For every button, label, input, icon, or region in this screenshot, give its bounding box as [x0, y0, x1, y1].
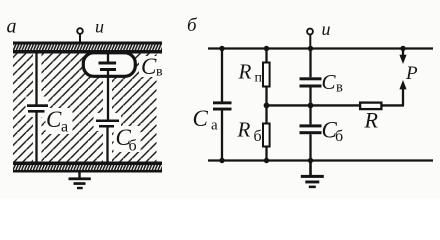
svg-text:б: б: [254, 128, 262, 145]
svg-text:а: а: [61, 119, 68, 136]
capacitor Cv (right diagram): [300, 77, 322, 87]
svg-text:а: а: [7, 16, 17, 38]
white patch behind Cb label: [114, 126, 141, 152]
svg-text:R: R: [237, 118, 251, 142]
svg-text:R: R: [364, 108, 379, 133]
svg-text:C: C: [141, 54, 157, 79]
white channel around Ca lead: [26, 54, 49, 162]
bottom wire: [208, 159, 433, 161]
wire left branch: [221, 49, 223, 161]
svg-text:в: в: [156, 65, 163, 80]
label Rb: [237, 118, 262, 146]
resistor Rb: [263, 124, 270, 147]
svg-text:C: C: [46, 107, 62, 132]
svg-text:п: п: [255, 71, 263, 86]
svg-text:C: C: [322, 70, 337, 94]
node dot resistor top: [264, 46, 269, 51]
top wire: [208, 47, 433, 49]
node dot cap top: [308, 46, 313, 51]
svg-text:б: б: [187, 15, 198, 36]
svg-text:б: б: [335, 128, 343, 145]
label Rp: [238, 60, 263, 86]
capacitor Cb (right diagram): [300, 124, 322, 134]
ground (right diagram): [301, 161, 324, 189]
label Ca (left): [46, 107, 68, 136]
node dot resistor mid: [264, 103, 270, 109]
node dot cap bottom: [308, 158, 313, 163]
label и (left): [95, 17, 104, 37]
label Cb (left): [116, 125, 137, 155]
node dot cap mid: [308, 103, 314, 109]
label Cv (right): [322, 70, 344, 96]
svg-text:а: а: [211, 118, 218, 134]
node dot top-left: [219, 46, 224, 51]
terminal и (left): [77, 28, 83, 42]
label и (right): [322, 19, 331, 39]
svg-text:и: и: [95, 17, 104, 37]
svg-text:б: б: [129, 138, 137, 155]
arrow P up: [399, 80, 406, 105]
capacitor Cb (left diagram): [96, 120, 119, 162]
svg-text:и: и: [322, 19, 331, 39]
node dot resistor bottom: [264, 158, 269, 163]
svg-text:C: C: [193, 106, 209, 131]
arrow P down: [399, 49, 406, 65]
capacitor Cv (left diagram): [99, 52, 117, 120]
svg-text:P: P: [405, 63, 418, 84]
white channel around Cb lead: [94, 77, 122, 162]
label P: [405, 63, 418, 84]
resistor branch wire: [265, 49, 267, 161]
ground (left diagram): [69, 172, 91, 189]
node dot arrow top: [400, 46, 405, 51]
resistor Rp: [263, 63, 270, 87]
svg-text:в: в: [336, 80, 343, 96]
middle capacitor branch wire: [309, 49, 311, 161]
label а (diagram marker): [7, 16, 17, 38]
label Ca (right): [193, 106, 219, 134]
terminal и (right): [307, 29, 313, 49]
label Cv (left): [139, 54, 163, 80]
mid wire: [267, 104, 405, 106]
bottom electrode bar: [13, 162, 162, 173]
top electrode bar: [13, 42, 162, 54]
stadium cavity (Cv region): [83, 53, 135, 77]
capacitor Ca (right diagram): [213, 101, 232, 110]
svg-text:R: R: [238, 60, 252, 84]
label Cb (right): [322, 118, 344, 146]
resistor R: [360, 103, 381, 110]
dielectric hatched block: [13, 54, 157, 162]
white patch behind Ca label: [46, 108, 73, 134]
label R: [364, 108, 379, 133]
label б (diagram marker): [187, 15, 198, 36]
capacitor Ca (left diagram): [27, 53, 48, 162]
node dot bottom-left: [219, 158, 224, 163]
